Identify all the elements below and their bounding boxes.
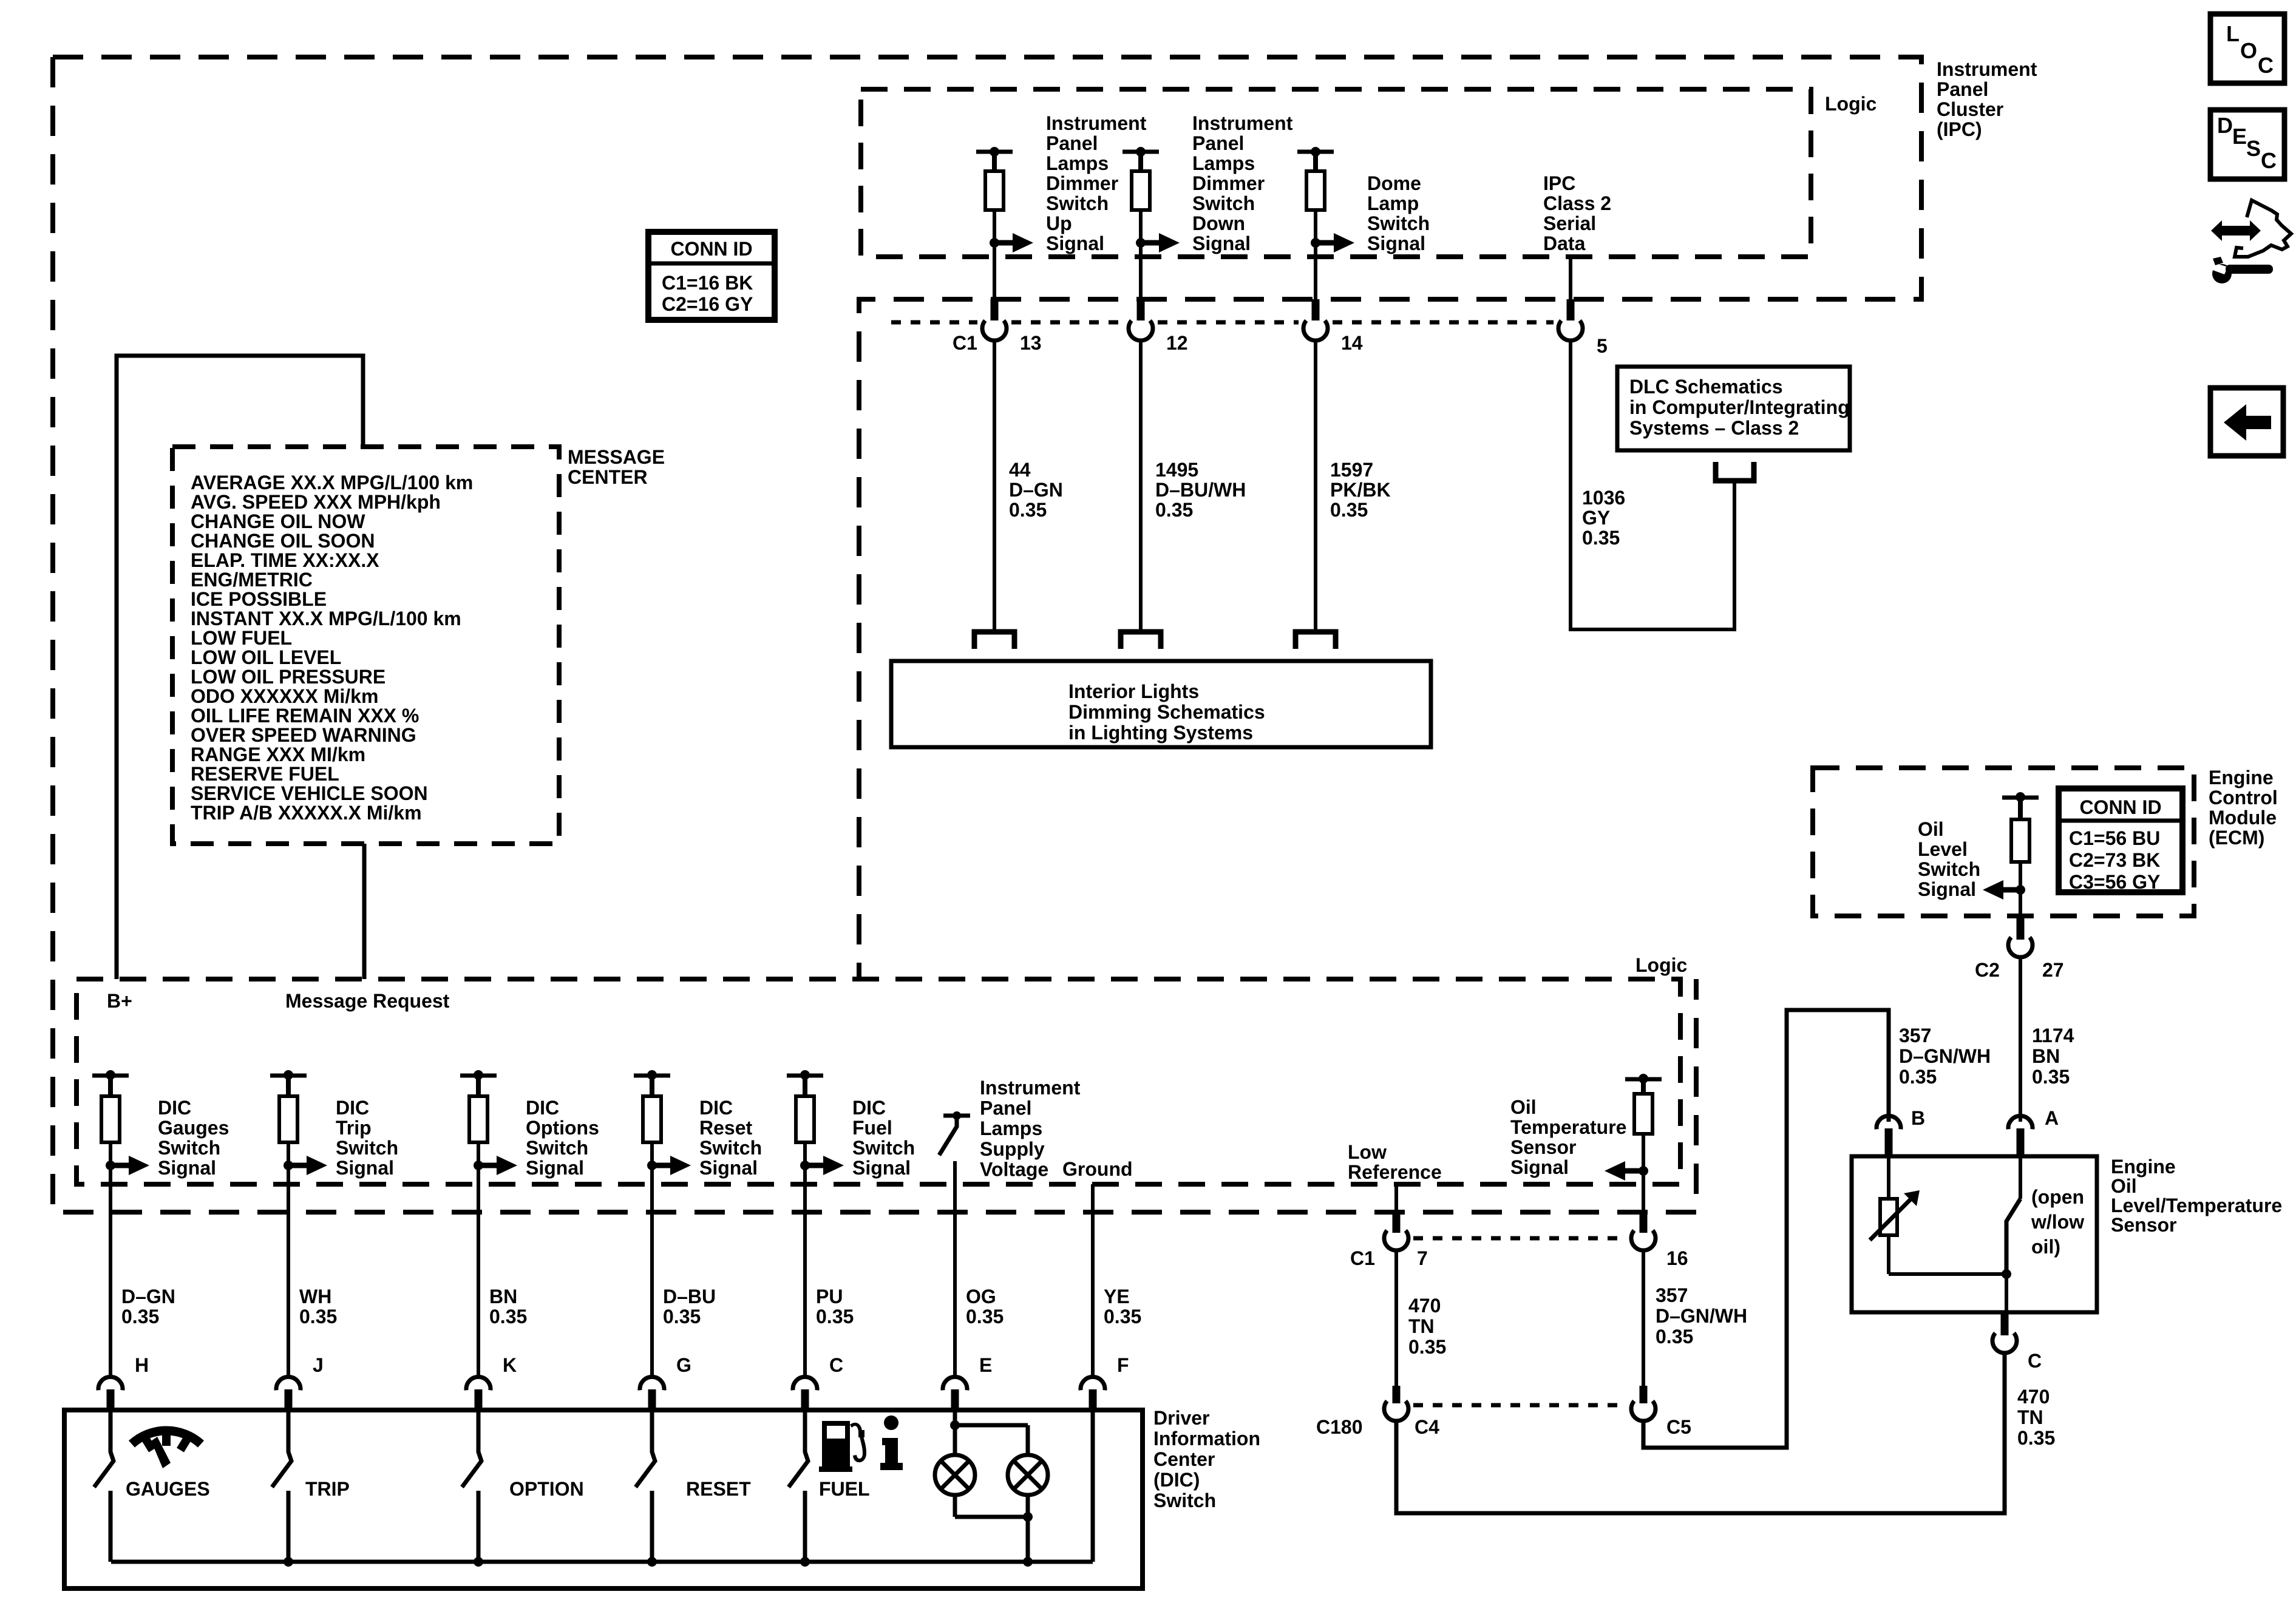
svg-text:Signal: Signal bbox=[1510, 1156, 1569, 1178]
svg-text:C180: C180 bbox=[1316, 1416, 1363, 1438]
svg-text:Logic: Logic bbox=[1635, 954, 1687, 976]
svg-text:Signal: Signal bbox=[336, 1157, 394, 1179]
resistor (pin 13 branch) bbox=[992, 152, 997, 171]
svg-text:Level/Temperature: Level/Temperature bbox=[2111, 1195, 2282, 1216]
svg-text:GY: GY bbox=[1582, 507, 1610, 529]
bus junction bbox=[1023, 1557, 1033, 1567]
svg-text:C4: C4 bbox=[1415, 1416, 1439, 1438]
wire to connector K bbox=[477, 1165, 480, 1375]
svg-text:C3=56 GY: C3=56 GY bbox=[2069, 871, 2160, 893]
svg-text:S: S bbox=[2246, 136, 2261, 161]
svg-text:D–GN/WH: D–GN/WH bbox=[1656, 1305, 1747, 1327]
svg-text:Dome: Dome bbox=[1367, 172, 1421, 194]
svg-text:Engine: Engine bbox=[2209, 767, 2274, 788]
svg-text:5: 5 bbox=[1597, 335, 1608, 357]
gauges (speedometer) icon bbox=[132, 1431, 201, 1468]
wire C5 to sensor pin B bbox=[1643, 1010, 1889, 1448]
svg-text:PU: PU bbox=[816, 1286, 843, 1307]
svg-text:Fuel: Fuel bbox=[852, 1117, 892, 1139]
DIC Reset branch: internal connection bar bbox=[634, 1074, 670, 1078]
svg-text:13: 13 bbox=[1020, 332, 1042, 354]
connector J bbox=[276, 1377, 301, 1390]
svg-text:470: 470 bbox=[2017, 1386, 2050, 1408]
svg-text:in Computer/Integrating: in Computer/Integrating bbox=[1629, 396, 1850, 418]
svg-text:Reference: Reference bbox=[1348, 1161, 1442, 1183]
svg-text:7: 7 bbox=[1417, 1247, 1428, 1269]
svg-text:CONN ID: CONN ID bbox=[670, 238, 752, 260]
oil level switch signal branch: internal connection bar bbox=[2002, 796, 2039, 800]
svg-text:357: 357 bbox=[1899, 1025, 1931, 1046]
svg-text:OPTION: OPTION bbox=[509, 1478, 584, 1500]
svg-text:B: B bbox=[1911, 1107, 1925, 1129]
svg-text:C1=16 BK: C1=16 BK bbox=[662, 272, 753, 294]
svg-text:LOW FUEL: LOW FUEL bbox=[191, 627, 292, 649]
svg-text:Signal: Signal bbox=[1192, 232, 1251, 254]
DIC Fuel branch: internal connection bar bbox=[787, 1074, 823, 1078]
svg-text:Message Request: Message Request bbox=[285, 990, 450, 1012]
svg-text:D–GN/WH: D–GN/WH bbox=[1899, 1045, 1991, 1067]
svg-text:RANGE XXX MI/km: RANGE XXX MI/km bbox=[191, 744, 365, 765]
svg-text:0.35: 0.35 bbox=[1155, 499, 1193, 521]
svg-text:0.35: 0.35 bbox=[299, 1306, 337, 1327]
resistor (oil level switch signal) bbox=[2018, 798, 2023, 819]
svg-text:Sensor: Sensor bbox=[2111, 1214, 2176, 1236]
Engine Oil Level/Temperature Sensor box bbox=[1852, 1156, 2097, 1312]
svg-text:D–BU: D–BU bbox=[663, 1286, 716, 1307]
connector K bbox=[466, 1377, 491, 1390]
svg-text:D: D bbox=[2217, 113, 2233, 138]
svg-text:Options: Options bbox=[526, 1117, 599, 1139]
svg-text:0.35: 0.35 bbox=[2017, 1427, 2055, 1449]
bracket into Interior Lights box (pin 13 wire) bbox=[974, 632, 1014, 649]
wire to connector G bbox=[650, 1165, 654, 1375]
svg-text:0.35: 0.35 bbox=[489, 1306, 527, 1327]
svg-text:Switch: Switch bbox=[1046, 192, 1109, 214]
svg-text:D–GN: D–GN bbox=[121, 1286, 175, 1307]
MESSAGE CENTER dashed box bbox=[172, 447, 559, 844]
svg-text:w/low: w/low bbox=[2031, 1211, 2084, 1233]
svg-text:Signal: Signal bbox=[1367, 232, 1425, 254]
svg-text:E: E bbox=[979, 1354, 992, 1376]
svg-text:WH: WH bbox=[299, 1286, 331, 1307]
svg-text:C: C bbox=[829, 1354, 843, 1376]
svg-text:OIL LIFE REMAIN XXX %: OIL LIFE REMAIN XXX % bbox=[191, 705, 419, 727]
svg-text:Panel: Panel bbox=[1192, 132, 1244, 154]
svg-text:0.35: 0.35 bbox=[1899, 1066, 1937, 1088]
LOC icon box bbox=[2210, 14, 2284, 83]
svg-text:H: H bbox=[135, 1354, 149, 1376]
svg-text:Instrument: Instrument bbox=[1192, 112, 1293, 134]
resistor (DIC Trip) bbox=[286, 1076, 291, 1096]
svg-text:Dimmer: Dimmer bbox=[1192, 172, 1265, 194]
svg-text:E: E bbox=[2232, 124, 2247, 149]
svg-text:DIC: DIC bbox=[158, 1097, 191, 1119]
svg-text:C2=73 BK: C2=73 BK bbox=[2069, 849, 2160, 871]
resistor (DIC Options) bbox=[476, 1076, 481, 1096]
svg-text:0.35: 0.35 bbox=[121, 1306, 159, 1327]
svg-text:Center: Center bbox=[1153, 1448, 1215, 1470]
svg-text:O: O bbox=[2240, 38, 2257, 63]
svg-text:(open: (open bbox=[2031, 1186, 2084, 1208]
svg-text:0.35: 0.35 bbox=[663, 1306, 701, 1327]
bus junction bbox=[647, 1557, 657, 1567]
svg-text:27: 27 bbox=[2042, 959, 2064, 981]
svg-text:ENG/METRIC: ENG/METRIC bbox=[191, 569, 313, 591]
svg-text:GAUGES: GAUGES bbox=[126, 1478, 210, 1500]
svg-text:C1=56 BU: C1=56 BU bbox=[2069, 827, 2160, 849]
svg-text:Sensor: Sensor bbox=[1510, 1136, 1576, 1158]
svg-text:14: 14 bbox=[1341, 332, 1363, 354]
DLC Schematics box bbox=[1617, 367, 1850, 450]
svg-text:Switch: Switch bbox=[1153, 1490, 1216, 1511]
svg-text:D–GN: D–GN bbox=[1009, 479, 1063, 501]
svg-text:MESSAGE: MESSAGE bbox=[568, 446, 665, 468]
svg-text:Panel: Panel bbox=[980, 1097, 1031, 1119]
svg-text:Signal: Signal bbox=[158, 1157, 216, 1179]
svg-text:DIC: DIC bbox=[699, 1097, 733, 1119]
svg-text:Low: Low bbox=[1348, 1141, 1387, 1163]
wire to connector J bbox=[287, 1165, 290, 1375]
svg-text:Interior Lights: Interior Lights bbox=[1068, 680, 1199, 702]
signal junction + arrow (DIC Trip) bbox=[287, 1142, 290, 1165]
svg-text:0.35: 0.35 bbox=[1330, 499, 1368, 521]
svg-text:Reset: Reset bbox=[699, 1117, 753, 1139]
svg-text:Switch: Switch bbox=[852, 1137, 915, 1159]
svg-text:Ground: Ground bbox=[1062, 1158, 1133, 1180]
svg-text:DIC: DIC bbox=[336, 1097, 369, 1119]
svg-text:Up: Up bbox=[1046, 212, 1072, 234]
connector C1 pin 12 bbox=[1137, 299, 1145, 320]
resistor (DIC Reset) bbox=[650, 1076, 654, 1096]
svg-text:LOW OIL PRESSURE: LOW OIL PRESSURE bbox=[191, 666, 385, 688]
connector C bbox=[793, 1377, 817, 1390]
svg-text:CENTER: CENTER bbox=[568, 466, 648, 488]
dimmer switch signal branch pin 13: internal connection bar bbox=[976, 150, 1013, 154]
wire from pin 14 to Interior Lights box bbox=[1314, 341, 1317, 632]
svg-text:Switch: Switch bbox=[1367, 212, 1430, 234]
svg-text:RESET: RESET bbox=[686, 1478, 751, 1500]
svg-text:0.35: 0.35 bbox=[966, 1306, 1004, 1327]
GAUGES switch bbox=[94, 1412, 114, 1487]
back arrow icon box bbox=[2210, 388, 2283, 456]
svg-text:Module: Module bbox=[2209, 807, 2277, 829]
svg-text:1174: 1174 bbox=[2032, 1025, 2074, 1046]
lamp circuit bottom bbox=[953, 1495, 957, 1517]
svg-text:L: L bbox=[2226, 21, 2240, 46]
wire from pin 13 to Interior Lights box bbox=[993, 341, 996, 632]
svg-text:Panel: Panel bbox=[1046, 132, 1098, 154]
svg-text:0.35: 0.35 bbox=[1582, 527, 1620, 549]
svg-text:1495: 1495 bbox=[1155, 459, 1198, 481]
svg-text:Data: Data bbox=[1543, 232, 1586, 254]
svg-text:TN: TN bbox=[2017, 1406, 2043, 1428]
F ground wire inside box bbox=[1091, 1412, 1095, 1562]
serial data wire pin 5 bbox=[1569, 257, 1572, 299]
svg-text:Signal: Signal bbox=[1918, 878, 1976, 900]
svg-text:0.35: 0.35 bbox=[1408, 1336, 1446, 1358]
CONN ID box (ECM) bbox=[2059, 788, 2182, 892]
oil level switch (open w/low oil) bbox=[2019, 1156, 2022, 1199]
C180 connector dotted line (upper row) bbox=[1413, 1236, 1626, 1241]
svg-text:BN: BN bbox=[489, 1286, 517, 1307]
svg-text:Switch: Switch bbox=[526, 1137, 588, 1159]
svg-text:Signal: Signal bbox=[852, 1157, 911, 1179]
svg-text:Cluster: Cluster bbox=[1937, 98, 2003, 120]
svg-text:Signal: Signal bbox=[699, 1157, 758, 1179]
svg-text:Temperature: Temperature bbox=[1510, 1116, 1626, 1138]
svg-text:C1: C1 bbox=[1350, 1247, 1375, 1269]
ECM dashed box bbox=[1813, 768, 2194, 916]
bus junction bbox=[474, 1557, 483, 1567]
svg-text:0.35: 0.35 bbox=[1104, 1306, 1141, 1327]
svg-text:FUEL: FUEL bbox=[819, 1478, 870, 1500]
resistor (DIC Fuel) bbox=[803, 1076, 807, 1096]
svg-text:470: 470 bbox=[1408, 1295, 1441, 1317]
svg-text:0.35: 0.35 bbox=[1656, 1326, 1693, 1347]
svg-text:Dimming Schematics: Dimming Schematics bbox=[1068, 701, 1265, 723]
svg-text:12: 12 bbox=[1166, 332, 1188, 354]
svg-text:Oil: Oil bbox=[1510, 1096, 1537, 1118]
resistor (pin 12 branch) bbox=[1138, 152, 1143, 171]
svg-text:Down: Down bbox=[1192, 212, 1245, 234]
connector C (sensor) bbox=[2001, 1312, 2009, 1335]
bus junction bbox=[284, 1557, 293, 1567]
connector H bbox=[98, 1377, 123, 1390]
signal junction + arrow pin 14 bbox=[1311, 238, 1320, 248]
svg-text:YE: YE bbox=[1104, 1286, 1130, 1307]
svg-text:0.35: 0.35 bbox=[816, 1306, 854, 1327]
bracket into Interior Lights box (pin 12 wire) bbox=[1121, 632, 1161, 649]
svg-text:B+: B+ bbox=[107, 990, 132, 1012]
TRIP switch bbox=[272, 1412, 291, 1487]
svg-text:Instrument: Instrument bbox=[1937, 58, 2037, 80]
connector G bbox=[640, 1377, 664, 1390]
svg-text:TN: TN bbox=[1408, 1315, 1435, 1337]
Message Request wire bbox=[362, 844, 367, 979]
svg-text:Panel: Panel bbox=[1937, 78, 1988, 100]
svg-text:Level: Level bbox=[1918, 838, 1968, 860]
svg-text:CHANGE OIL NOW: CHANGE OIL NOW bbox=[191, 510, 365, 532]
svg-text:(IPC): (IPC) bbox=[1937, 118, 1982, 140]
svg-text:ICE POSSIBLE: ICE POSSIBLE bbox=[191, 588, 327, 610]
wire to connector 16 bbox=[1642, 1171, 1645, 1212]
svg-text:J: J bbox=[313, 1354, 324, 1376]
illumination lamp 1 bbox=[935, 1455, 975, 1495]
svg-text:16: 16 bbox=[1666, 1247, 1688, 1269]
svg-text:Gauges: Gauges bbox=[158, 1117, 229, 1139]
svg-text:Lamps: Lamps bbox=[980, 1117, 1042, 1139]
svg-text:C5: C5 bbox=[1666, 1416, 1691, 1438]
svg-text:C2=16 GY: C2=16 GY bbox=[662, 293, 753, 315]
Driver Information Center (DIC) Switch box bbox=[64, 1410, 1143, 1588]
svg-text:D–BU/WH: D–BU/WH bbox=[1155, 479, 1246, 501]
YE ground wire (F) bbox=[1091, 1184, 1095, 1375]
svg-text:(DIC): (DIC) bbox=[1153, 1469, 1200, 1491]
wire 470 TN to C4 bbox=[1394, 1250, 1398, 1386]
svg-text:44: 44 bbox=[1009, 459, 1031, 481]
svg-text:Driver: Driver bbox=[1153, 1407, 1210, 1429]
svg-text:Engine: Engine bbox=[2111, 1156, 2176, 1178]
svg-text:AVERAGE XX.X MPG/L/100 km: AVERAGE XX.X MPG/L/100 km bbox=[191, 472, 473, 493]
switch bottom bus bbox=[111, 1560, 1093, 1564]
wire 16 to C5 bbox=[1642, 1250, 1645, 1386]
svg-text:TRIP: TRIP bbox=[305, 1478, 350, 1500]
dimmer switch signal branch pin 14: internal connection bar bbox=[1297, 150, 1334, 154]
svg-text:Oil: Oil bbox=[1918, 818, 1944, 840]
svg-text:Switch: Switch bbox=[699, 1137, 762, 1159]
wire to connector C bbox=[803, 1165, 807, 1375]
svg-text:Control: Control bbox=[2209, 787, 2278, 808]
svg-text:Signal: Signal bbox=[526, 1157, 584, 1179]
svg-text:Switch: Switch bbox=[1192, 192, 1255, 214]
wire to connector H bbox=[109, 1165, 112, 1375]
FUEL switch bbox=[789, 1412, 808, 1487]
wire below resistor pin 14 bbox=[1314, 210, 1317, 299]
svg-text:Information: Information bbox=[1153, 1428, 1260, 1449]
svg-text:SERVICE VEHICLE SOON: SERVICE VEHICLE SOON bbox=[191, 782, 428, 804]
svg-text:G: G bbox=[676, 1354, 691, 1376]
svg-text:CHANGE OIL SOON: CHANGE OIL SOON bbox=[191, 530, 375, 552]
CONN ID box (IPC) bbox=[648, 232, 775, 320]
resistor (pin 14 branch) bbox=[1313, 152, 1318, 171]
svg-text:C2: C2 bbox=[1975, 959, 2000, 981]
svg-text:IPC: IPC bbox=[1543, 172, 1575, 194]
Oil Temperature Sensor Signal branch: internal connection bar bbox=[1625, 1077, 1662, 1082]
svg-text:oil): oil) bbox=[2031, 1236, 2060, 1258]
connector A bbox=[2008, 1116, 2033, 1129]
svg-text:Lamp: Lamp bbox=[1367, 192, 1419, 214]
svg-text:INSTANT XX.X MPG/L/100 km: INSTANT XX.X MPG/L/100 km bbox=[191, 608, 461, 629]
DIC Gauges branch: internal connection bar bbox=[92, 1074, 129, 1078]
svg-text:Switch: Switch bbox=[1918, 858, 1980, 880]
svg-text:1036: 1036 bbox=[1582, 487, 1625, 509]
wire from pin 12 to Interior Lights box bbox=[1139, 341, 1143, 632]
svg-text:C1: C1 bbox=[953, 332, 977, 354]
thermistor (oil temperature sensing element) bbox=[1887, 1156, 1890, 1199]
resistor (DIC Gauges) bbox=[108, 1076, 113, 1096]
svg-text:0.35: 0.35 bbox=[1009, 499, 1047, 521]
svg-text:Switch: Switch bbox=[158, 1137, 220, 1159]
svg-text:RESERVE FUEL: RESERVE FUEL bbox=[191, 763, 339, 785]
svg-text:OVER SPEED WARNING: OVER SPEED WARNING bbox=[191, 724, 416, 746]
svg-text:Instrument: Instrument bbox=[1046, 112, 1147, 134]
svg-text:Supply: Supply bbox=[980, 1138, 1045, 1160]
resistor (oil temperature sensor signal) bbox=[1641, 1079, 1646, 1094]
signal junction + arrow (DIC Gauges) bbox=[109, 1142, 112, 1165]
svg-text:Trip: Trip bbox=[336, 1117, 372, 1139]
connector B bbox=[1877, 1116, 1901, 1129]
connector E bbox=[943, 1377, 967, 1390]
svg-text:OG: OG bbox=[966, 1286, 996, 1307]
svg-text:Serial: Serial bbox=[1543, 212, 1596, 234]
svg-text:Switch: Switch bbox=[336, 1137, 398, 1159]
fuel pump icon bbox=[819, 1421, 866, 1472]
IPC outer dashed border bbox=[53, 57, 1921, 1212]
wire below resistor pin 12 bbox=[1139, 210, 1143, 299]
B+ feed wire (top bridge) bbox=[117, 356, 363, 979]
svg-text:F: F bbox=[1117, 1354, 1129, 1376]
pointer/navigation icon (double arrow + panel outline + wrench) bbox=[2211, 200, 2291, 283]
low reference wire to C1-7 bbox=[1394, 1184, 1398, 1212]
signal junction + arrow pin 13 bbox=[990, 238, 999, 248]
signal junction + left arrow bbox=[1642, 1134, 1645, 1171]
illumination lamp 2 bbox=[1008, 1455, 1048, 1495]
svg-text:Signal: Signal bbox=[1046, 232, 1104, 254]
connector C1 pin 13 bbox=[991, 299, 999, 320]
svg-text:Systems – Class 2: Systems – Class 2 bbox=[1629, 417, 1799, 439]
svg-text:DIC: DIC bbox=[526, 1097, 559, 1119]
svg-text:CONN ID: CONN ID bbox=[2079, 796, 2161, 818]
svg-text:PK/BK: PK/BK bbox=[1330, 479, 1391, 501]
svg-text:0.35: 0.35 bbox=[2032, 1066, 2070, 1088]
wire below resistor pin 13 bbox=[993, 210, 996, 299]
signal junction + arrow (DIC Options) bbox=[477, 1142, 480, 1165]
lamp circuit junction bbox=[953, 1412, 957, 1454]
info (i) icon bbox=[880, 1415, 903, 1470]
svg-text:K: K bbox=[503, 1354, 517, 1376]
svg-text:in Lighting Systems: in Lighting Systems bbox=[1068, 722, 1253, 744]
instrument panel lamps supply voltage symbol bbox=[943, 1114, 970, 1118]
svg-text:Logic: Logic bbox=[1825, 93, 1877, 115]
svg-text:Dimmer: Dimmer bbox=[1046, 172, 1118, 194]
OPTION switch bbox=[462, 1412, 481, 1487]
svg-text:Voltage: Voltage bbox=[980, 1158, 1048, 1180]
DLC bracket bbox=[1716, 462, 1754, 481]
IPC C1 connector dotted line bbox=[891, 320, 977, 325]
wire C4 to sensor pin C bbox=[1396, 1352, 2005, 1513]
dimmer switch signal branch pin 12: internal connection bar bbox=[1123, 150, 1159, 154]
svg-text:ELAP. TIME XX:XX.X: ELAP. TIME XX:XX.X bbox=[191, 549, 379, 571]
svg-text:C: C bbox=[2028, 1350, 2042, 1372]
DIC Options branch: internal connection bar bbox=[460, 1074, 497, 1078]
svg-text:C: C bbox=[2258, 53, 2274, 78]
connector C1 pin 14 bbox=[1312, 299, 1320, 320]
C180 connector dotted line (lower row) bbox=[1413, 1403, 1626, 1408]
svg-text:A: A bbox=[2045, 1107, 2059, 1129]
svg-text:BN: BN bbox=[2032, 1045, 2060, 1067]
svg-text:Class 2: Class 2 bbox=[1543, 192, 1611, 214]
svg-text:AVG. SPEED XXX MPH/kph: AVG. SPEED XXX MPH/kph bbox=[191, 491, 441, 513]
svg-text:Lamps: Lamps bbox=[1192, 152, 1255, 174]
svg-text:LOW OIL LEVEL: LOW OIL LEVEL bbox=[191, 646, 341, 668]
connector F bbox=[1081, 1377, 1105, 1390]
svg-text:(ECM): (ECM) bbox=[2209, 827, 2264, 849]
signal junction + arrow (DIC Fuel) bbox=[803, 1142, 807, 1165]
wire 1036 GY from pin 5 to DLC bbox=[1571, 341, 1734, 629]
svg-text:357: 357 bbox=[1656, 1284, 1688, 1306]
bus junction bbox=[800, 1557, 810, 1567]
DIC Trip branch: internal connection bar bbox=[270, 1074, 307, 1078]
bracket into Interior Lights box (pin 14 wire) bbox=[1296, 632, 1336, 649]
DESC icon box bbox=[2210, 110, 2284, 179]
svg-text:Instrument: Instrument bbox=[980, 1077, 1081, 1099]
signal junction + arrow (DIC Reset) bbox=[650, 1142, 654, 1165]
signal junction + arrow pin 12 bbox=[1136, 238, 1146, 248]
svg-text:DLC Schematics: DLC Schematics bbox=[1629, 376, 1783, 398]
svg-text:Lamps: Lamps bbox=[1046, 152, 1109, 174]
OG wire (E) bbox=[953, 1161, 957, 1375]
wire 1174 BN to sensor pin A bbox=[2019, 957, 2022, 1122]
svg-text:C: C bbox=[2261, 148, 2277, 173]
wire to connector C2-27 bbox=[2019, 890, 2022, 916]
svg-text:Oil: Oil bbox=[2111, 1175, 2137, 1197]
lower Logic dashed box bbox=[76, 979, 1680, 1184]
RESET switch bbox=[636, 1412, 655, 1487]
svg-text:TRIP A/B XXXXX.X Mi/km: TRIP A/B XXXXX.X Mi/km bbox=[191, 802, 422, 824]
signal junction + left arrow (oil level) bbox=[2019, 862, 2022, 890]
Interior Lights Dimming Schematics box bbox=[891, 661, 1431, 747]
svg-text:ODO XXXXXX Mi/km: ODO XXXXXX Mi/km bbox=[191, 685, 378, 707]
